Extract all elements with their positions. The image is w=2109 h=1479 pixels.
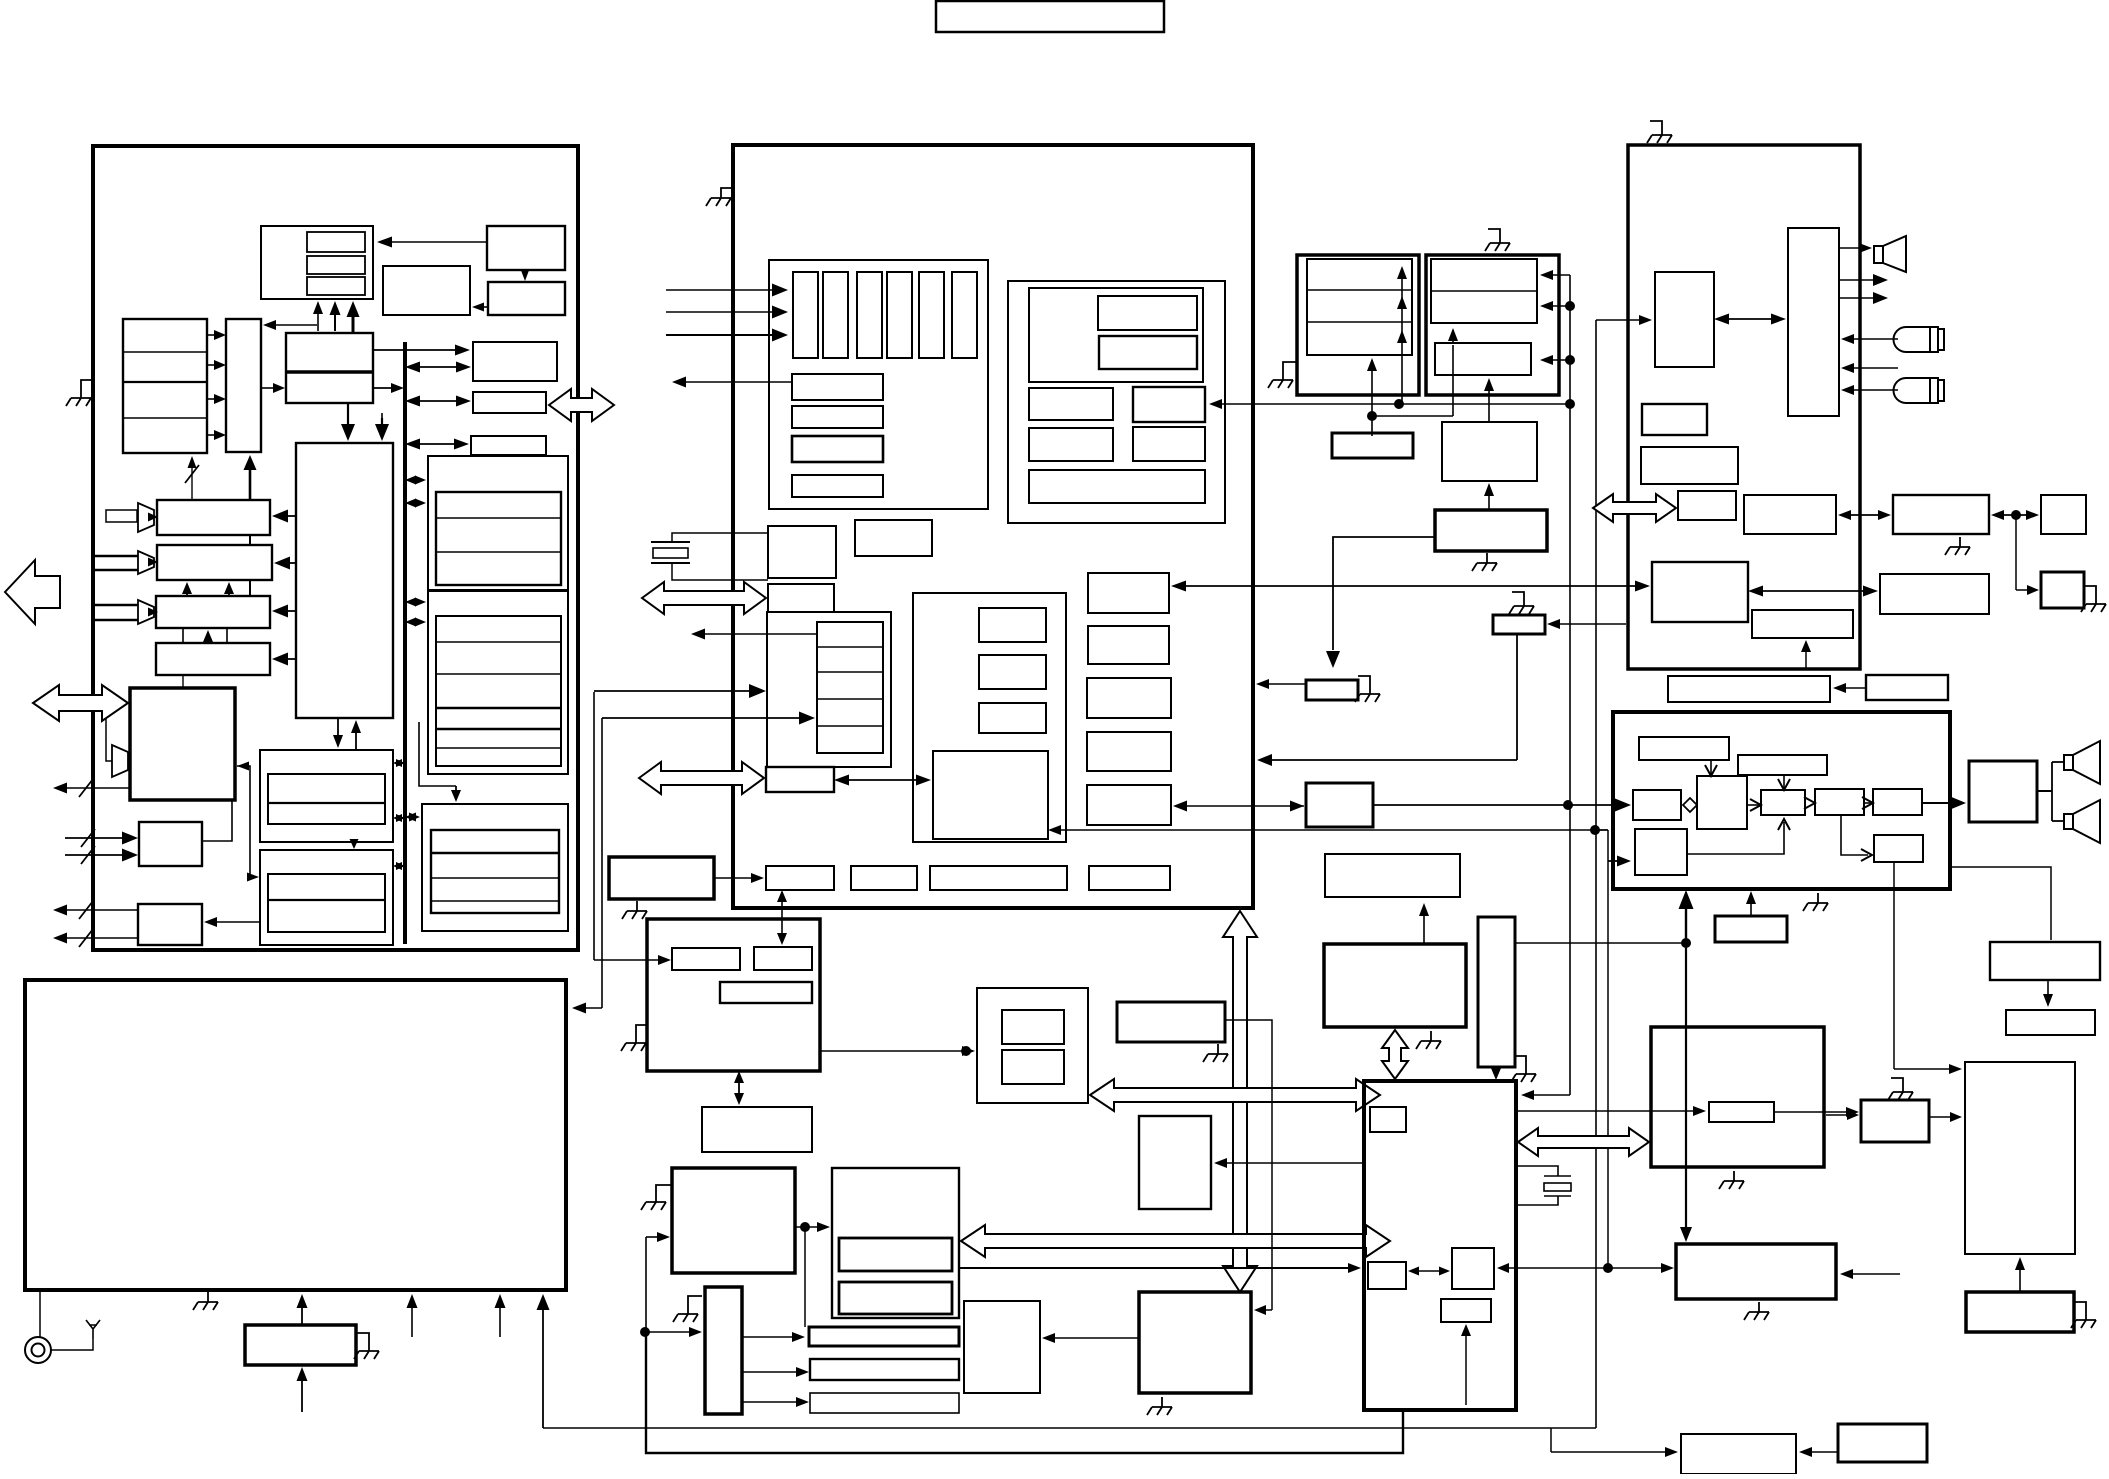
wire T2 down: [2015, 515, 2017, 590]
wire into R3: [204, 917, 260, 927]
P2 inner low: [1435, 343, 1531, 375]
regulator container: [1008, 281, 1225, 523]
wire Q3 riser: [1372, 416, 1453, 436]
wire up into P1 low: [1367, 358, 1377, 416]
wire F to G: [261, 383, 285, 393]
wire G to A up1: [313, 301, 323, 331]
block G: [286, 333, 373, 403]
memory container 2: [428, 591, 568, 774]
wire B to C: [521, 269, 530, 281]
slash R3 b: [79, 929, 93, 947]
chain 4-5 line: [1864, 802, 1871, 804]
mem1 div a: [436, 517, 561, 519]
ground stem Z: [636, 1025, 647, 1033]
wire down into mem3: [451, 786, 461, 802]
chain 3-4 chevron: [1804, 797, 1815, 809]
wire E-F 2: [207, 360, 226, 370]
cpu low bidir: [1408, 1267, 1450, 1276]
line up into box c: [537, 1294, 550, 1428]
wire Q0 to Q: [350, 839, 359, 849]
block below amp thick: [1715, 916, 1787, 942]
ground R2: [354, 1341, 379, 1359]
block R2 thick: [245, 1325, 356, 1365]
block FF thick: [1139, 1292, 1251, 1393]
wire N1-N2 link: [249, 535, 251, 545]
row1-Zb bidir: [777, 890, 787, 945]
P2 inner div: [1431, 290, 1537, 292]
chain 4-5 chevron: [1862, 797, 1873, 809]
input line N2a: [93, 555, 138, 558]
memory inner 2: [436, 616, 561, 766]
mem2 div b: [436, 673, 561, 675]
input line N3a: [93, 604, 138, 607]
up into low2: [1461, 1324, 1471, 1405]
block N2: [157, 545, 272, 580]
bottom row 1: [766, 866, 834, 890]
block B: [487, 226, 565, 270]
system bus arrow far left: [5, 560, 60, 624]
block T2: [2041, 495, 2086, 534]
bus-Q bidir: [393, 862, 405, 870]
ground P2 top: [1485, 229, 1510, 251]
into cpu inner right: [1497, 1263, 1516, 1273]
ground right top: [1647, 121, 1672, 143]
wire N4 stub a: [182, 675, 184, 688]
amp in3: [138, 600, 154, 624]
wire V right bend: [1950, 867, 2051, 940]
ground T4: [2081, 594, 2106, 612]
ground sync: [1416, 1031, 1441, 1049]
mid right col 3: [1087, 678, 1171, 718]
ground wide box: [1744, 1302, 1769, 1320]
ground stem BB: [688, 1296, 702, 1304]
input stub 1: [106, 510, 137, 522]
AA inner b: [839, 1282, 952, 1314]
FF to DD: [1042, 1333, 1139, 1343]
block EE: [1139, 1116, 1211, 1209]
wire C riser: [1595, 829, 1608, 831]
junction P1: [1394, 399, 1404, 409]
wire O right bend: [237, 766, 256, 877]
mid right col 5: [1087, 785, 1171, 825]
block Q7 thick: [1493, 615, 1545, 634]
block F: [226, 319, 261, 452]
decoder rows: [817, 622, 883, 753]
amp3 to N3: [148, 608, 158, 617]
hbar 1: [792, 374, 883, 400]
vproc box a: [979, 608, 1046, 642]
ground Q5: [1472, 553, 1497, 571]
block Q6 thick: [1306, 680, 1358, 700]
bus-I bidir: [405, 396, 471, 407]
col5 link left: [1173, 801, 1304, 812]
block RB thick: [1651, 1027, 1824, 1167]
into FF right: [1254, 1305, 1272, 1315]
Z2 to AA: [795, 1222, 830, 1232]
reset down into cpu: [1491, 1067, 1502, 1080]
head down to Q6: [1326, 651, 1340, 668]
bottom row 4: [1089, 866, 1170, 890]
junction CC0: [961, 1046, 971, 1056]
stub up into box a: [407, 1294, 418, 1337]
P2 inner top: [1431, 259, 1537, 323]
block Za: [672, 948, 740, 970]
reg left 2: [1029, 428, 1113, 461]
speaker wire 2: [2052, 820, 2064, 822]
dec div4: [817, 725, 883, 727]
wire K to N4: [272, 653, 296, 666]
RB small to tall: [1929, 1112, 1962, 1122]
wire G to bus: [373, 383, 404, 393]
up from VB1: [1746, 891, 1756, 916]
eeprom P1 thick: [1297, 255, 1419, 395]
wire P2b up to O: [202, 800, 232, 841]
ground BB: [673, 1304, 698, 1322]
AA to cpu wire: [960, 1263, 1361, 1273]
junction BB: [640, 1327, 650, 1337]
chain 2-3 line: [1747, 804, 1759, 806]
slash P2b a: [81, 829, 95, 847]
mem3 div b: [431, 877, 559, 879]
vproc box b: [979, 655, 1046, 689]
into Z2: [646, 1232, 670, 1242]
block A container: [261, 226, 373, 299]
block osc: [768, 526, 836, 578]
port block 2: [766, 767, 834, 792]
FR1 down: [2043, 980, 2053, 1007]
block Q container: [260, 850, 393, 945]
block Z2 thick: [672, 1168, 795, 1273]
W2 to row1: [714, 873, 764, 883]
bus-Q0 bidir b: [393, 814, 405, 822]
decoder out left: [691, 629, 817, 640]
block S1: [1655, 272, 1714, 367]
amp in2: [138, 551, 154, 574]
junction T2: [2011, 510, 2021, 520]
amp box 1: [1633, 790, 1681, 820]
pin bar 6: [952, 272, 977, 358]
bus-mem3: [405, 813, 420, 822]
into amp low1: [1608, 856, 1631, 867]
BB out 2: [742, 1367, 809, 1377]
reg right 1: [1133, 387, 1205, 422]
block BP2 thick: [1838, 1424, 1927, 1462]
mem2 div a: [436, 641, 561, 643]
ground stem left edge: [81, 380, 93, 388]
jack1 into S2: [1841, 334, 1898, 344]
digital section frame: [93, 146, 578, 950]
dac vertical arrow: [1223, 911, 1257, 1292]
slash O out: [79, 779, 93, 797]
amp2 to N2: [148, 558, 158, 567]
S2 out a: [1839, 274, 1888, 286]
ground amp box: [1803, 893, 1828, 911]
wire into T4: [2016, 585, 2039, 595]
crystal X1 plates: [651, 542, 690, 563]
pin bar 4: [887, 272, 912, 358]
mid right col 2: [1088, 626, 1169, 664]
bus slash E: [185, 465, 199, 483]
decoder container: [767, 612, 891, 767]
up into sync: [1419, 903, 1429, 944]
crystal X1 body: [653, 548, 688, 558]
amp box 4: [1815, 789, 1864, 815]
ground P1 left: [1268, 370, 1293, 388]
memory inner 3: [431, 830, 559, 913]
arrowhead into Q: [247, 873, 259, 882]
wire K to N1: [272, 510, 296, 523]
RB inner: [1709, 1102, 1774, 1122]
mid right col 1: [1088, 573, 1169, 613]
block S7: [1652, 562, 1748, 622]
right chevron into low2: [1861, 849, 1872, 861]
block CC2: [810, 1359, 959, 1380]
ground Q6: [1355, 684, 1380, 702]
cpu inner low2: [1441, 1299, 1491, 1322]
amp box 3: [1761, 790, 1805, 815]
Z-Y2 bidir: [734, 1071, 744, 1105]
wire N3-N2 up b: [224, 582, 234, 596]
block A row3: [307, 277, 365, 295]
block S3: [1642, 404, 1707, 435]
S7-T3 bidir: [1748, 586, 1878, 597]
junction Q3: [1367, 411, 1377, 421]
jack icon 2: [1894, 378, 1944, 403]
wire R3 out a: [53, 905, 138, 916]
bus-mem1 b: [405, 499, 426, 508]
mid into S2: [1841, 363, 1898, 373]
wire up to F: [244, 455, 257, 500]
wire N3-N2 up a: [182, 582, 192, 596]
cpu inner top: [1370, 1107, 1406, 1132]
port arrow 1: [642, 582, 766, 614]
V1570 into P2 a: [1540, 270, 1570, 280]
BP2 to BP1: [1799, 1447, 1838, 1457]
ground stem Z2: [656, 1185, 672, 1192]
mem2 div c: [436, 707, 561, 710]
bus-J bidir: [405, 439, 469, 450]
wire G to A up3: [347, 301, 360, 333]
diamond link: [1683, 798, 1697, 812]
V1570 into cpu: [1521, 1090, 1570, 1100]
reg wide bottom: [1029, 470, 1205, 503]
host bus arrow left: [33, 685, 128, 721]
reg top inner 1: [1098, 296, 1197, 330]
ground Q7 top: [1509, 592, 1534, 614]
amp in O: [112, 745, 128, 777]
into wide box left: [1610, 1263, 1674, 1273]
wire loop to ant: [51, 1339, 93, 1350]
junction V1570 d: [1565, 399, 1575, 409]
V1596 into S1: [1596, 315, 1652, 325]
into BP1: [1551, 1447, 1678, 1457]
block BP1: [1681, 1434, 1796, 1474]
junction V1570 c: [1565, 355, 1575, 365]
sync thick box: [1324, 944, 1466, 1027]
speaker icon out1: [2064, 741, 2100, 784]
wire eeprom to reg: [1209, 399, 1568, 409]
reg left 1: [1029, 388, 1113, 420]
block W2 thick: [609, 857, 714, 899]
up into R2: [297, 1367, 308, 1412]
block Q5 thick: [1435, 510, 1547, 551]
bus-mem1 a: [405, 476, 426, 485]
block CC1: [809, 1327, 959, 1346]
data bus vertical: [403, 342, 407, 944]
thick up line into amp: [1685, 908, 1687, 943]
cpu bus arrow 2: [961, 1225, 1390, 1257]
block G thick divider: [286, 370, 373, 374]
R2 up into box: [297, 1294, 308, 1325]
wire I down bend: [381, 413, 383, 420]
block H: [473, 342, 557, 381]
S2 to speaker: [1839, 243, 1872, 253]
wire Q7 to frame: [1257, 754, 1517, 766]
slash R3 a: [79, 901, 93, 919]
bus-mem2 b: [405, 618, 426, 627]
t1 down line: [1710, 760, 1712, 774]
into amp box1: [1373, 799, 1631, 812]
input line N3b: [93, 619, 138, 622]
input wire 1: [666, 284, 788, 297]
CC0 inner b: [1002, 1050, 1064, 1084]
speaker icon out2: [2064, 800, 2100, 843]
block DD0 thick: [1117, 1002, 1225, 1042]
junction V1570 b: [1565, 301, 1575, 311]
amp box 5: [1873, 789, 1922, 815]
ground stem RBb: [2074, 1302, 2086, 1310]
wide box thick: [1676, 1244, 1836, 1299]
stub into wide right: [1840, 1269, 1900, 1279]
block RB tall: [1965, 1062, 2075, 1254]
wire G to A up2: [330, 301, 341, 331]
chain 2-3 chevron: [1750, 799, 1761, 811]
block O: [130, 688, 235, 800]
wire E-F 3: [207, 394, 226, 404]
arrowhead into F: [263, 320, 276, 330]
dec div2: [817, 671, 883, 673]
S2 out b: [1839, 292, 1888, 304]
dec div1: [817, 646, 883, 648]
amp1 to N1: [148, 513, 158, 522]
AA inner a: [839, 1238, 952, 1271]
block S8: [1752, 610, 1853, 638]
ground mid top-left: [706, 188, 733, 206]
ground Z2: [641, 1192, 666, 1210]
wire to amp O: [106, 719, 112, 761]
block A row2: [307, 256, 365, 274]
block Zb: [754, 947, 812, 970]
block C: [488, 282, 565, 315]
wire G to H: [373, 345, 470, 356]
block Q divider: [268, 899, 385, 901]
V1570 into P2 b: [1540, 301, 1570, 311]
wire K to N3: [272, 605, 296, 618]
memory container 3: [422, 804, 568, 931]
ground left edge: [66, 388, 91, 406]
tuner big box: [25, 980, 566, 1290]
audio vertical down: [1680, 944, 1692, 1242]
CC0 inner a: [1002, 1010, 1064, 1044]
wire O out left: [53, 783, 130, 794]
block U2: [1866, 675, 1948, 700]
wire low1 to box3: [1687, 822, 1784, 854]
P2 head stem: [1452, 330, 1454, 343]
wire E-F 4: [207, 430, 226, 440]
connector block container: [769, 260, 988, 509]
junction Z2-AA: [800, 1222, 810, 1232]
slash P2b b: [81, 846, 95, 864]
mem1 div b: [436, 551, 561, 553]
reset tall box: [1478, 917, 1515, 1067]
block D: [383, 266, 470, 315]
input wire 2: [666, 306, 788, 319]
ground stem T4: [2084, 586, 2096, 594]
wire G down to K: [341, 403, 355, 441]
cpu inner low1: [1368, 1262, 1406, 1289]
block N4: [156, 643, 270, 675]
wire C to D: [472, 303, 488, 312]
wire 805 down: [804, 1227, 806, 1327]
block CC0 container: [977, 988, 1088, 1103]
ground W2: [622, 901, 647, 919]
cpu-RB arrow: [1518, 1128, 1649, 1156]
port arrow 2: [639, 762, 764, 794]
vproc box c: [979, 703, 1046, 733]
wire riser 645: [645, 1237, 647, 1453]
bus arrow mid right: [549, 389, 614, 421]
block RB bottom thick: [1966, 1292, 2074, 1332]
wire N4-N3 up: [203, 630, 213, 643]
wire into blockZ: [594, 955, 671, 965]
block Q3 thick: [1332, 433, 1413, 458]
block J: [471, 436, 546, 455]
amp box low2: [1874, 835, 1923, 862]
wire box4 to low2: [1841, 815, 1868, 855]
vertical line V1596: [1595, 320, 1597, 1428]
wire into decoder row4: [602, 712, 815, 725]
cpu crystal: [1516, 1166, 1571, 1205]
wire B to A: [377, 237, 487, 248]
stub up into box b: [495, 1294, 506, 1337]
wire bus down b: [601, 718, 603, 1008]
wire amp to speakers: [2037, 790, 2052, 792]
col5 link head right: [1290, 801, 1304, 812]
wire Q5 left down: [1333, 537, 1435, 650]
RB inner to small: [1774, 1107, 1859, 1117]
hbar 2: [792, 406, 883, 428]
wire N2-N3 link: [249, 580, 251, 596]
bottom row 3: [930, 866, 1067, 890]
Q5 up to Q4: [1484, 483, 1494, 510]
block R3: [138, 904, 202, 945]
audio amp frame: [1613, 712, 1950, 889]
bottom row 2: [851, 866, 917, 890]
block T1: [1893, 495, 1989, 534]
junction audio v: [1681, 938, 1691, 948]
P1 up head1: [1397, 266, 1407, 279]
wire P1 riser: [1401, 270, 1403, 404]
wire into vproc big: [1048, 825, 1608, 835]
wire Q7 down: [1516, 634, 1518, 760]
bus-H bidir: [405, 362, 471, 373]
block T4 thick: [2041, 572, 2084, 608]
audio section frame: [1628, 145, 1860, 669]
wire into decoder: [594, 684, 766, 698]
thick up head into amp: [1679, 890, 1694, 909]
Q6 out left: [1256, 679, 1306, 689]
wire DD0 bend: [1225, 1020, 1272, 1310]
